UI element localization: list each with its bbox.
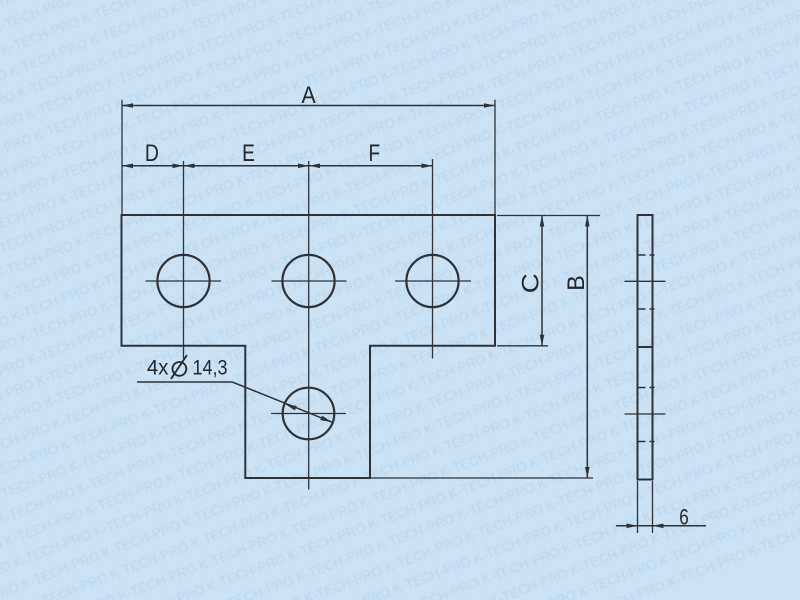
hole 4 xyxy=(283,388,335,440)
leader diagonal xyxy=(232,382,332,422)
svg-text:4x: 4x xyxy=(147,356,169,380)
arrow D left xyxy=(122,164,133,169)
leader arrow inner xyxy=(285,404,297,411)
dimension line D E F xyxy=(122,165,433,167)
watermark pattern xyxy=(0,0,1,1)
side view step edge xyxy=(638,346,653,348)
side view outline xyxy=(638,215,653,480)
extension line 6 left xyxy=(637,481,639,533)
arrow F left xyxy=(309,164,320,169)
dimension line 6 xyxy=(616,525,706,527)
arrow F right xyxy=(422,164,433,169)
svg-text:A: A xyxy=(302,82,317,109)
svg-text:14,3: 14,3 xyxy=(193,356,228,380)
arrow A right xyxy=(484,103,495,108)
svg-text:F: F xyxy=(369,140,381,167)
centerline hole3 horizontal xyxy=(395,280,471,282)
plate outline (front view) xyxy=(122,215,496,478)
arrow C bottom xyxy=(540,335,545,346)
dimension line C xyxy=(541,216,543,346)
dimension line B xyxy=(586,216,588,479)
dimension line A xyxy=(122,105,495,107)
arrow D right xyxy=(173,164,184,169)
centerline hole1 vertical xyxy=(183,161,185,359)
centerline hole1 horizontal xyxy=(146,280,222,282)
svg-text:D: D xyxy=(145,140,159,167)
centerline hole2 horizontal xyxy=(272,280,347,282)
side view hidden line hole4 top edge xyxy=(637,387,655,389)
arrow 6 left xyxy=(627,524,638,529)
extension line A right xyxy=(494,100,496,215)
hole 2 xyxy=(282,255,334,307)
arrow 6 right xyxy=(653,524,664,529)
svg-text:C: C xyxy=(517,273,544,293)
arrow A left xyxy=(122,103,133,108)
extension line B bottom xyxy=(371,477,593,479)
leader underline for hole note xyxy=(137,381,232,383)
centerline hole4 horizontal xyxy=(271,413,346,415)
arrow E left xyxy=(184,164,195,169)
leader arrow outer xyxy=(320,416,332,423)
side view hidden line hole bottom edge xyxy=(637,308,655,310)
note diameter symbol xyxy=(173,362,187,376)
side view hidden line hole top edge xyxy=(637,254,655,256)
extension line A left xyxy=(121,100,123,215)
centerline hole3 vertical xyxy=(432,159,434,359)
hole 3 xyxy=(406,255,458,307)
centerline hole2/hole4 vertical xyxy=(308,161,310,490)
side view centerline top holes xyxy=(625,280,666,282)
extension line C bottom xyxy=(497,345,548,347)
extension line top right (for C and B) xyxy=(497,215,600,217)
arrow B bottom xyxy=(585,467,590,478)
arrow C top xyxy=(540,216,545,227)
side view centerline hole4 xyxy=(625,413,666,415)
arrow B top xyxy=(585,216,590,227)
extension line 6 right xyxy=(652,481,654,533)
side view hidden line hole4 bottom edge xyxy=(637,441,655,443)
arrow E right xyxy=(298,164,309,169)
hole 1 xyxy=(157,255,209,307)
svg-text:B: B xyxy=(563,275,590,291)
svg-text:E: E xyxy=(242,140,255,167)
svg-text:6: 6 xyxy=(679,505,689,530)
